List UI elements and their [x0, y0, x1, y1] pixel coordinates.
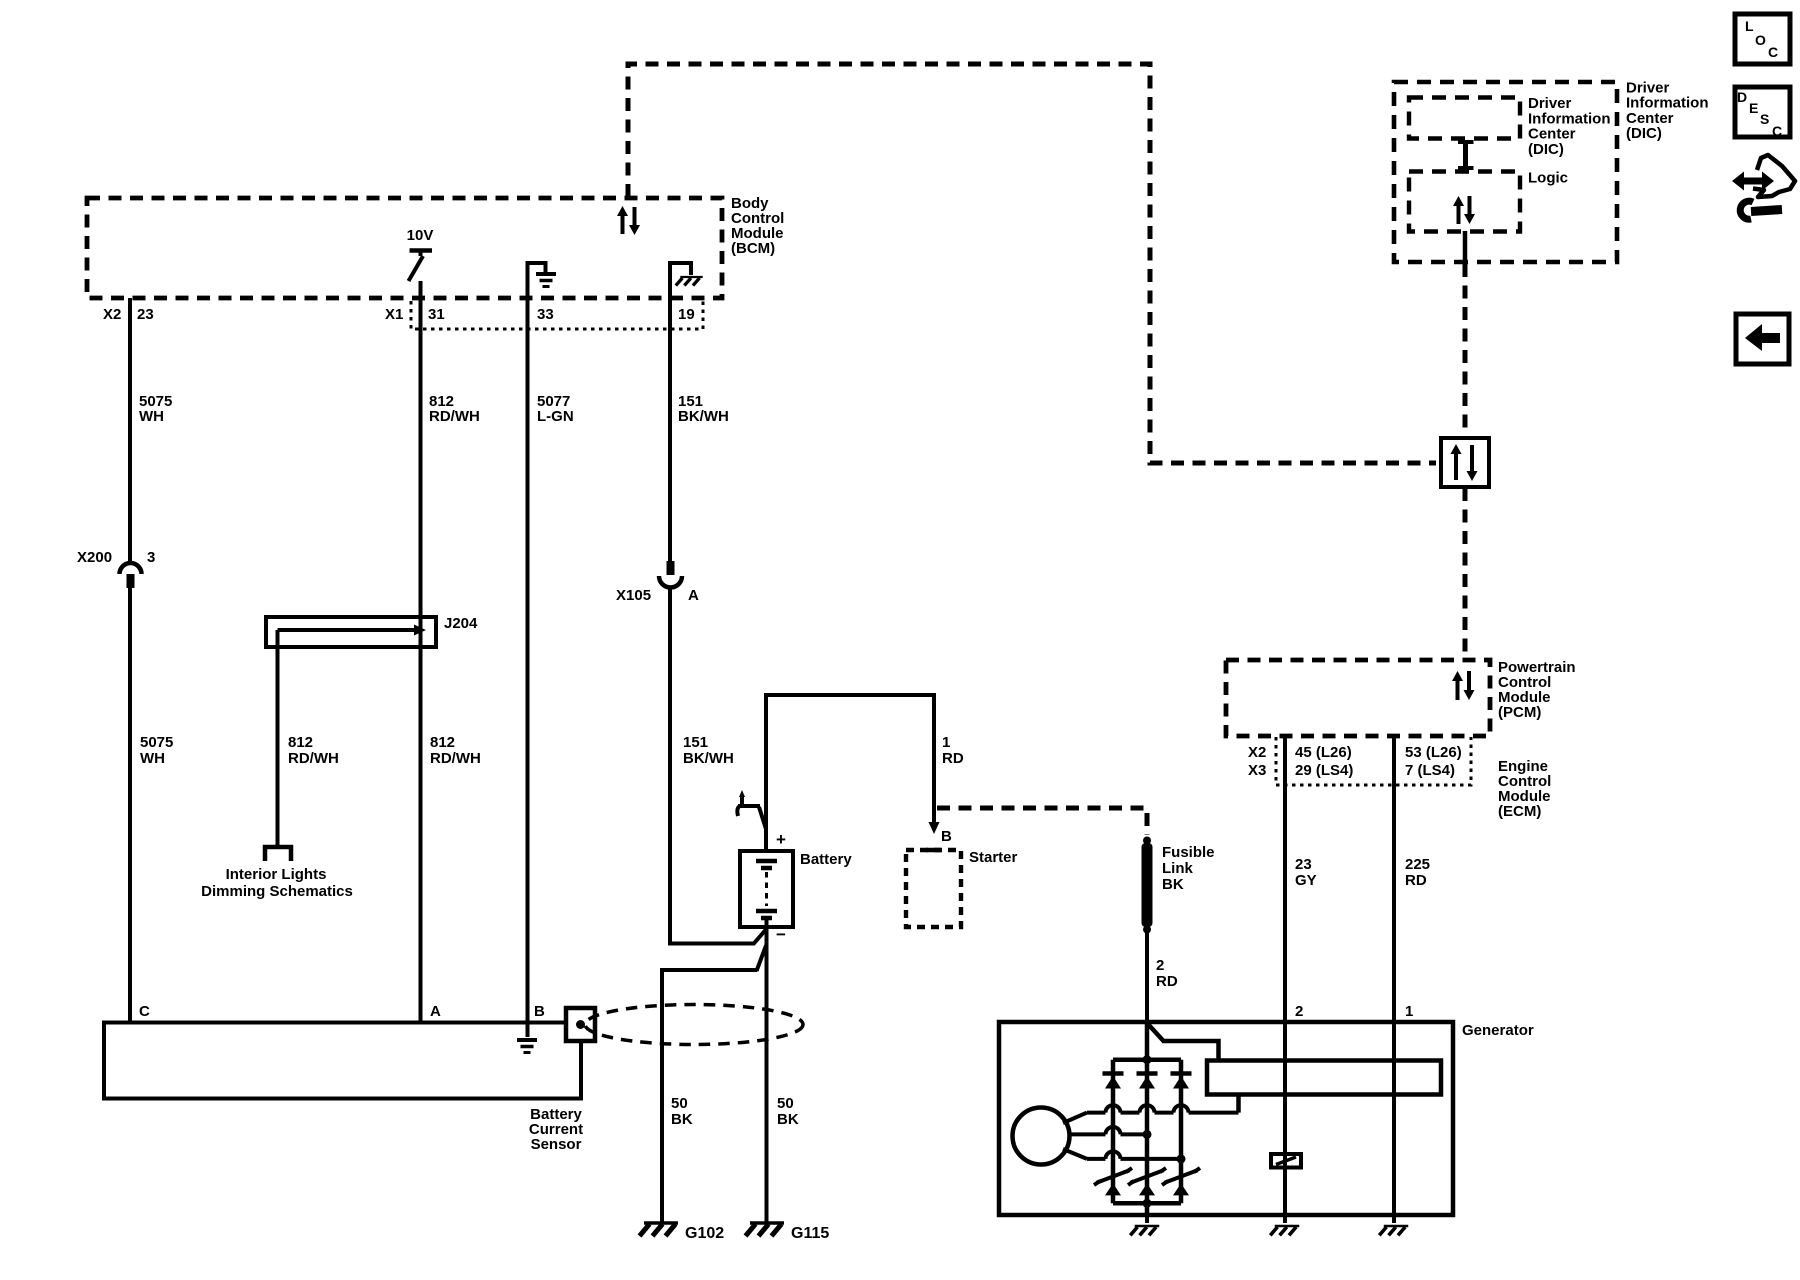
- splice J204 box: [266, 617, 436, 647]
- label 50 BK G115: [777, 1095, 799, 1128]
- svg-text:L-GN: L-GN: [537, 408, 574, 425]
- label 225 RD: [1405, 856, 1430, 889]
- junction dot phase middle: [1143, 1130, 1152, 1139]
- svg-text:RD: RD: [1156, 973, 1178, 990]
- stator phase lead middle: [1070, 1127, 1148, 1135]
- svg-text:RD/WH: RD/WH: [429, 408, 480, 425]
- wire starter to fusible link dashed: [937, 808, 1147, 835]
- label X200: [77, 549, 155, 566]
- stator winding circle: [1013, 1108, 1070, 1165]
- svg-text:C: C: [139, 1003, 150, 1020]
- label 10V: [407, 227, 434, 244]
- label ECM pin 53/7: [1405, 744, 1462, 779]
- service information icon: [1732, 155, 1795, 219]
- svg-text:Starter: Starter: [969, 849, 1018, 866]
- sensor cable pickup square: [566, 1008, 595, 1041]
- svg-text:S: S: [1760, 111, 1769, 127]
- wire 151 BK/WH upper: [668, 298, 672, 561]
- wire 5075 WH upper: [128, 298, 132, 561]
- svg-text:31: 31: [428, 306, 445, 323]
- battery positive clamp: [737, 790, 766, 829]
- connector X200: [120, 563, 142, 588]
- label generator pin 2: [1295, 1003, 1303, 1020]
- starter box: [906, 850, 961, 927]
- svg-text:50: 50: [777, 1095, 794, 1112]
- svg-text:J204: J204: [444, 615, 478, 632]
- svg-text:2: 2: [1156, 957, 1164, 974]
- wire 812 RD/WH pin31: [419, 281, 423, 1022]
- svg-text:BK: BK: [777, 1111, 799, 1128]
- svg-text:L: L: [1745, 18, 1754, 34]
- BCM serial data arrows: [617, 206, 640, 235]
- svg-text:BK/WH: BK/WH: [678, 408, 729, 425]
- sensor internal ground: [517, 1040, 537, 1053]
- svg-text:X200: X200: [77, 549, 112, 566]
- svg-text:BK: BK: [1162, 876, 1184, 893]
- label terminal B: [534, 1003, 545, 1020]
- generator lamp driver: [1271, 1154, 1301, 1168]
- label BCM: [731, 195, 784, 257]
- svg-text:1: 1: [1405, 1003, 1413, 1020]
- label X2 pin: [103, 306, 154, 323]
- svg-text:WH: WH: [139, 408, 164, 425]
- stator phase lead top: [1063, 1105, 1239, 1123]
- label PCM: [1498, 659, 1576, 721]
- data link connector symbol: [1441, 438, 1489, 487]
- label 1 RD: [942, 734, 964, 767]
- label ECM pins X2 X3: [1248, 744, 1266, 779]
- label 151 BK/WH lower: [683, 734, 734, 767]
- generator internal ground col2 stub: [1145, 1215, 1149, 1223]
- wire 151 BK/WH lower: [670, 587, 766, 945]
- label G102: [685, 1225, 724, 1242]
- svg-text:10V: 10V: [407, 227, 434, 244]
- junction dot phase bottom: [1177, 1154, 1186, 1163]
- svg-text:X1: X1: [385, 306, 403, 323]
- DIC logic serial data arrows: [1453, 196, 1475, 224]
- wire serial data bus DIC to DLC: [1463, 264, 1468, 437]
- svg-text:19: 19: [678, 306, 695, 323]
- stator phase lead bottom: [1063, 1149, 1181, 1159]
- label Logic: [1528, 170, 1568, 187]
- svg-text:Generator: Generator: [1462, 1022, 1534, 1039]
- diode upper 3: [1171, 1074, 1192, 1089]
- rectifier column 1: [1111, 1060, 1116, 1204]
- svg-text:53 (L26): 53 (L26): [1405, 744, 1462, 761]
- svg-text:1: 1: [942, 734, 950, 751]
- avalanche diode lower 2: [1128, 1168, 1166, 1195]
- label pin 19: [678, 306, 695, 323]
- label 812 RD/WH lower: [430, 734, 481, 767]
- wire DIC logic to module edge: [1463, 231, 1468, 263]
- label 5077 L-GN: [537, 393, 574, 425]
- svg-text:23: 23: [1295, 856, 1312, 873]
- label battery minus: [776, 925, 786, 944]
- wire 5075 WH lower: [128, 588, 132, 1022]
- label interior lights schematics: [201, 866, 353, 900]
- svg-text:−: −: [776, 925, 786, 944]
- DIC module box: [1394, 82, 1617, 262]
- BCM internal switch: [409, 250, 433, 281]
- svg-text:(DIC): (DIC): [1626, 125, 1662, 142]
- svg-text:GY: GY: [1295, 872, 1317, 889]
- ground G115: [746, 1223, 785, 1236]
- label 812 RD/WH upper: [429, 393, 480, 425]
- svg-text:(BCM): (BCM): [731, 240, 775, 257]
- svg-text:Link: Link: [1162, 860, 1193, 877]
- DIC display-logic link: [1458, 142, 1474, 168]
- label fusible link: [1162, 844, 1215, 893]
- interior lights branch terminator: [265, 847, 291, 861]
- label starter B: [941, 828, 952, 845]
- label battery plus: [776, 830, 786, 849]
- svg-text:X3: X3: [1248, 762, 1266, 779]
- label J204: [444, 615, 478, 632]
- generator ground pin2: [1270, 1226, 1299, 1235]
- svg-text:Battery: Battery: [800, 851, 852, 868]
- label generator pin 1: [1405, 1003, 1413, 1020]
- svg-text:G102: G102: [685, 1225, 724, 1242]
- label 50 BK G102: [671, 1095, 693, 1128]
- ground G102: [640, 1223, 679, 1236]
- label X105: [616, 587, 699, 604]
- svg-text:7 (LS4): 7 (LS4): [1405, 762, 1455, 779]
- label X1 pin: [385, 306, 445, 323]
- wire 23 GY: [1283, 736, 1287, 1022]
- svg-text:(PCM): (PCM): [1498, 704, 1541, 721]
- label 151 BK/WH upper: [678, 393, 729, 425]
- svg-text:RD: RD: [1405, 872, 1427, 889]
- svg-text:RD: RD: [942, 750, 964, 767]
- diode upper 1: [1103, 1074, 1124, 1089]
- BCM X1 connector box: [411, 301, 703, 329]
- svg-text:B: B: [534, 1003, 545, 1020]
- svg-text:WH: WH: [140, 750, 165, 767]
- avalanche diode lower 3: [1162, 1168, 1200, 1195]
- rectifier column 3: [1179, 1060, 1184, 1204]
- svg-text:X105: X105: [616, 587, 651, 604]
- svg-text:225: 225: [1405, 856, 1430, 873]
- label 5075 WH upper: [139, 393, 172, 425]
- label DIC inner: [1528, 95, 1611, 158]
- junction dot top bus: [1143, 1055, 1152, 1064]
- svg-text:A: A: [430, 1003, 441, 1020]
- svg-text:23: 23: [137, 306, 154, 323]
- svg-text:Interior Lights: Interior Lights: [226, 866, 327, 883]
- diode upper 2: [1137, 1074, 1158, 1089]
- svg-text:RD/WH: RD/WH: [430, 750, 481, 767]
- svg-text:C: C: [1772, 123, 1782, 139]
- label ECM: [1498, 758, 1551, 820]
- wire 5077 L-GN: [526, 298, 530, 1037]
- wire 50 BK to G102: [662, 946, 766, 1225]
- svg-text:Sensor: Sensor: [531, 1136, 582, 1153]
- rectifier top bus: [1113, 1057, 1181, 1062]
- svg-text:812: 812: [430, 734, 455, 751]
- label G115: [791, 1225, 829, 1242]
- rectifier column 2 / 2RD path: [1145, 1022, 1150, 1215]
- battery B1: [740, 851, 793, 927]
- svg-text:BK: BK: [671, 1111, 693, 1128]
- svg-text:45 (L26): 45 (L26): [1295, 744, 1352, 761]
- svg-text:+: +: [776, 830, 786, 849]
- svg-text:Dimming Schematics: Dimming Schematics: [201, 883, 353, 900]
- regulator to stator link: [1236, 1094, 1241, 1113]
- label 2 RD: [1156, 957, 1178, 990]
- ECM connector box: [1276, 737, 1471, 785]
- PCM serial data arrows: [1452, 671, 1475, 700]
- label 5075 WH lower: [140, 734, 173, 767]
- label 812 RD/WH branch: [288, 734, 339, 767]
- DESC navigation icon: [1735, 87, 1790, 139]
- wire 225 RD: [1392, 736, 1396, 1022]
- svg-text:G115: G115: [791, 1225, 829, 1242]
- label ECM pin 45/29: [1295, 744, 1353, 779]
- svg-text:5075: 5075: [140, 734, 173, 751]
- svg-text:Fusible: Fusible: [1162, 844, 1215, 861]
- generator field wire to regulator: [1147, 1023, 1219, 1061]
- svg-text:X2: X2: [1248, 744, 1266, 761]
- label 23 GY: [1295, 856, 1317, 889]
- generator internal wire pin1: [1392, 1022, 1396, 1223]
- generator ground middle: [1130, 1226, 1159, 1235]
- wire serial data bus DLC to PCM: [1463, 488, 1468, 659]
- svg-text:3: 3: [147, 549, 155, 566]
- svg-text:RD/WH: RD/WH: [288, 750, 339, 767]
- label Starter: [969, 849, 1018, 866]
- splice J204 branch: [278, 625, 427, 846]
- generator box: [999, 1022, 1453, 1215]
- label terminal C: [139, 1003, 150, 1020]
- junction dot bottom bus: [1143, 1199, 1152, 1208]
- label DIC outer: [1626, 80, 1709, 143]
- LOC navigation icon: [1735, 14, 1790, 64]
- label terminal A: [430, 1003, 441, 1020]
- svg-text:812: 812: [288, 734, 313, 751]
- svg-text:151: 151: [683, 734, 708, 751]
- svg-text:2: 2: [1295, 1003, 1303, 1020]
- DIC display box: [1409, 98, 1520, 139]
- rectifier bottom bus: [1113, 1201, 1181, 1206]
- generator ground pin1: [1379, 1226, 1408, 1235]
- svg-text:29 (LS4): 29 (LS4): [1295, 762, 1353, 779]
- BCM internal ground pin 33: [528, 263, 557, 298]
- svg-text:(ECM): (ECM): [1498, 803, 1541, 820]
- svg-text:33: 33: [537, 306, 554, 323]
- PCM module box: [1226, 660, 1490, 736]
- svg-text:D: D: [1737, 89, 1747, 105]
- wire 1 RD battery to starter: [766, 695, 940, 851]
- svg-text:Logic: Logic: [1528, 170, 1568, 187]
- svg-text:(DIC): (DIC): [1528, 141, 1564, 158]
- svg-text:O: O: [1755, 32, 1766, 48]
- label Battery: [800, 851, 852, 868]
- fusible link BK: [1142, 837, 1153, 934]
- battery current sensor box: [104, 1023, 581, 1099]
- svg-text:X2: X2: [103, 306, 121, 323]
- voltage regulator: [1207, 1061, 1441, 1095]
- BCM module box: [87, 198, 722, 298]
- generator internal wire pin2: [1283, 1022, 1287, 1223]
- label pin 33: [537, 306, 554, 323]
- back arrow icon: [1736, 314, 1789, 364]
- DIC logic box: [1409, 172, 1520, 232]
- wire battery negative stub: [765, 919, 769, 1224]
- battery cable ellipse: [585, 1005, 803, 1045]
- wire serial data bus BCM to splice: [628, 64, 1436, 463]
- svg-text:C: C: [1768, 44, 1778, 60]
- svg-text:50: 50: [671, 1095, 688, 1112]
- svg-text:A: A: [688, 587, 699, 604]
- label battery current sensor: [529, 1106, 583, 1153]
- connector X105: [659, 561, 682, 588]
- svg-text:BK/WH: BK/WH: [683, 750, 734, 767]
- svg-text:B: B: [941, 828, 952, 845]
- BCM internal chassis ground pin 19: [670, 263, 703, 298]
- label Generator: [1462, 1022, 1534, 1039]
- wire 2 RD: [1145, 929, 1149, 1022]
- svg-text:E: E: [1749, 100, 1758, 116]
- avalanche diode lower 1: [1094, 1168, 1132, 1195]
